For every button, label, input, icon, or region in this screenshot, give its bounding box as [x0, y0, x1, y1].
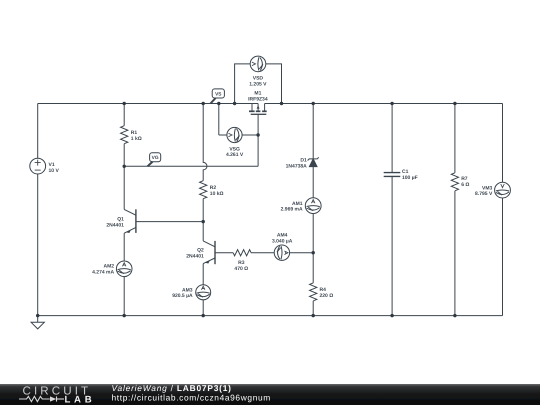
resistor R7 — [451, 173, 458, 191]
svg-text:100 µF: 100 µF — [402, 175, 418, 181]
wire Q2 base to R3 — [215, 252, 233, 254]
wire AM4 to node — [290, 252, 314, 254]
junction C1/bottom rail — [390, 314, 393, 317]
resistor R3 — [233, 250, 251, 256]
wire left branch lower — [37, 174, 39, 316]
wire Q2 collector lead — [202, 222, 204, 241]
footer bar — [0, 383, 540, 405]
wire VSD loop right — [266, 64, 282, 104]
svg-text:470 Ω: 470 Ω — [234, 266, 248, 272]
svg-text:2N4401: 2N4401 — [106, 222, 124, 228]
wire D1 top lead — [312, 104, 314, 159]
wire R1 bottom lead — [123, 144, 125, 167]
wire R7 bottom lead — [454, 191, 456, 316]
wire Q1 collector lead — [123, 166, 125, 209]
resistor R1 — [121, 126, 128, 144]
svg-text:2.969 mA: 2.969 mA — [281, 207, 303, 213]
wire M1 gate lead — [257, 114, 259, 166]
junction R1/top rail — [123, 102, 126, 105]
junction R4/bottom rail — [312, 314, 315, 317]
ammeter AM2 — [116, 261, 132, 277]
junction R7/bottom rail — [453, 314, 456, 317]
wire VS branch vertical — [218, 104, 220, 136]
junction VSD right/top rail — [280, 102, 283, 105]
svg-text:M1: M1 — [254, 91, 261, 97]
wire D1 to AM1 — [312, 167, 314, 198]
wire top rail left — [38, 103, 258, 105]
wire C1 bottom lead — [391, 176, 393, 315]
junction R7/top rail — [453, 102, 456, 105]
svg-text:LAB: LAB — [65, 394, 96, 405]
transistor Q1 — [124, 209, 136, 233]
wire R2 bottom lead — [202, 199, 204, 222]
junction ground — [36, 314, 39, 317]
wire Q1 base to R2 junction — [136, 221, 203, 223]
wire VSG to gate node — [242, 134, 258, 136]
voltage source V1 — [30, 158, 46, 174]
wire AM1 to AM4 node — [312, 214, 314, 253]
junction Q1 base/R2 — [202, 220, 205, 223]
svg-text:3.040 µA: 3.040 µA — [272, 238, 293, 244]
junction VSD left/top rail — [233, 102, 236, 105]
junction VS/top rail — [217, 102, 220, 105]
svg-text:2N4401: 2N4401 — [186, 253, 204, 259]
wire AM2 to ground rail — [123, 277, 125, 316]
svg-text:1.205 V: 1.205 V — [249, 82, 267, 88]
wire node to R4 — [312, 253, 314, 283]
svg-text:4.274 mA: 4.274 mA — [92, 269, 114, 275]
wire bottom rail — [38, 315, 503, 317]
svg-text:VG: VG — [152, 155, 159, 161]
wire R1 top lead — [123, 104, 125, 126]
wire Q1 emitter to AM2 — [123, 233, 125, 261]
svg-text:1N4738A: 1N4738A — [286, 163, 308, 169]
ground — [31, 322, 44, 329]
junction C1/top rail — [390, 102, 393, 105]
ammeter AM3 — [196, 285, 211, 300]
svg-text:VS: VS — [215, 91, 222, 97]
junction R2/top rail — [202, 102, 205, 105]
svg-text:10 kΩ: 10 kΩ — [210, 191, 224, 197]
wire VM3 top lead — [502, 104, 504, 183]
svg-text:8.795 V: 8.795 V — [475, 191, 493, 197]
junction AM2/bottom rail — [123, 314, 126, 317]
wire R4 bottom lead — [312, 301, 314, 316]
voltmeter VSG — [227, 127, 242, 142]
svg-text:1 kΩ: 1 kΩ — [131, 136, 142, 142]
wire ground stub — [37, 316, 39, 323]
capacitor C1 — [384, 173, 401, 177]
wire Q2 emitter to AM3 — [202, 264, 204, 285]
svg-text:IRF9Z34: IRF9Z34 — [248, 97, 268, 103]
junction AM4/R4 node — [312, 251, 315, 254]
ammeter AM1 — [305, 198, 321, 214]
wire R7 top lead — [454, 104, 456, 173]
MOSFET M1 — [249, 104, 267, 115]
junction D1/top rail — [312, 102, 315, 105]
transistor Q2 — [203, 241, 215, 264]
CircuitLab logo — [19, 385, 95, 405]
node VG flag — [148, 153, 161, 167]
svg-text:6 Ω: 6 Ω — [461, 182, 469, 188]
svg-text:220 Ω: 220 Ω — [320, 293, 334, 299]
wire top rail right — [265, 103, 503, 105]
wire R2 top lead with hop over VG wire — [203, 104, 207, 181]
voltmeter VM3 — [495, 182, 511, 198]
svg-text:920.5 µA: 920.5 µA — [172, 293, 193, 299]
ammeter AM4 — [274, 245, 289, 260]
svg-text:10 V: 10 V — [49, 168, 60, 174]
svg-text:http://circuitlab.com/cczn4a96: http://circuitlab.com/cczn4a96wgnum — [112, 393, 271, 403]
junction VSG/gate — [256, 133, 259, 136]
wire C1 top lead — [391, 104, 393, 173]
wire left branch upper — [37, 104, 39, 159]
voltmeter VSD — [250, 56, 266, 72]
wire node VG horizontal — [124, 165, 258, 167]
wire VS branch to VSG — [219, 134, 227, 136]
junction AM3/bottom rail — [202, 314, 205, 317]
wire R3 to AM4 — [251, 252, 274, 254]
resistor R2 — [200, 181, 207, 199]
resistor R4 — [310, 283, 317, 301]
zener diode D1 — [308, 157, 319, 166]
svg-text:4.261 V: 4.261 V — [226, 152, 244, 158]
node VS flag — [211, 89, 225, 104]
wire AM3 to ground rail — [202, 300, 204, 316]
wire VSD loop left — [235, 64, 251, 104]
junction R1/VG wire — [123, 165, 126, 168]
wire VM3 bottom lead — [502, 198, 504, 316]
